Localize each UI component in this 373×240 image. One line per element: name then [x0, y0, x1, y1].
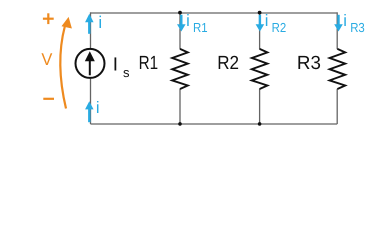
resistor R1 — [172, 49, 188, 89]
current arrow iR1 (down) — [177, 15, 186, 32]
wire: R2 branch top stub — [259, 13, 261, 49]
svg-text:i: i — [96, 99, 100, 117]
svg-text:R1: R1 — [193, 20, 208, 35]
resistor R3 — [330, 49, 346, 89]
wire: R1 branch bottom stub — [179, 89, 181, 124]
current arrow iR2 (down) — [256, 15, 265, 32]
svg-text:R3: R3 — [297, 53, 321, 74]
voltage polarity plus sign — [43, 13, 54, 24]
wire: R3 branch bottom stub — [336, 89, 338, 124]
node: junction dot bottom R2 — [258, 122, 262, 126]
svg-text:R1: R1 — [139, 53, 159, 74]
current source Is (circle with up arrow) — [76, 49, 105, 78]
wire: R1 branch top stub — [179, 13, 181, 49]
voltage reference arc arrow (orange) — [60, 27, 66, 109]
wire: bottom bus — [91, 123, 338, 125]
wire: top bus — [91, 12, 338, 14]
wire: left branch top segment — [90, 12, 92, 48]
voltage polarity minus sign — [43, 98, 54, 100]
wire: left branch bottom segment — [90, 79, 92, 124]
svg-text:V: V — [41, 50, 53, 69]
svg-text:i: i — [343, 12, 347, 30]
resistor R2 — [252, 49, 268, 89]
svg-text:i: i — [265, 12, 269, 30]
wire: R3 branch (right side) top stub — [336, 12, 338, 49]
svg-text:i: i — [98, 13, 102, 32]
current arrow i (top left, up) — [85, 14, 94, 34]
svg-text:s: s — [123, 65, 130, 80]
wire: R2 branch bottom stub — [259, 89, 261, 124]
node: junction dot top R1 — [178, 11, 182, 15]
node: junction dot bottom R1 — [178, 122, 182, 126]
current arrow i (bottom left, up) — [85, 101, 94, 122]
svg-text:R2: R2 — [272, 20, 287, 35]
svg-text:I: I — [113, 55, 118, 76]
current arrow iR3 (down) — [334, 15, 343, 32]
node: junction dot top R2 — [258, 11, 262, 15]
svg-text:R3: R3 — [350, 20, 365, 35]
svg-text:i: i — [186, 12, 190, 30]
svg-text:R2: R2 — [217, 53, 239, 74]
